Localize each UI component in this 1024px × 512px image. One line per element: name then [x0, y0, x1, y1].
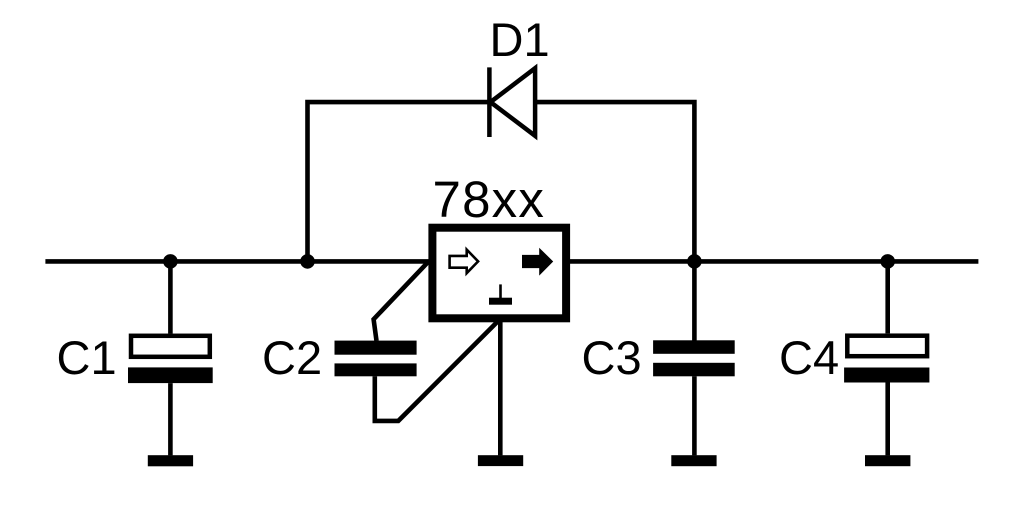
ground: C3	[671, 455, 716, 466]
capacitor C4 (polarized)	[844, 336, 929, 383]
wire: top rail from D1 to right riser down to output	[535, 102, 694, 261]
svg-text:C1: C1	[57, 331, 117, 384]
wire: input rail	[45, 259, 432, 264]
ground: C4	[865, 455, 910, 466]
svg-text:C3: C3	[582, 331, 642, 384]
ground: regulator	[478, 455, 523, 466]
node: junction at C1	[163, 254, 178, 269]
svg-text:C4: C4	[779, 331, 839, 384]
regulator output arrow (filled)	[522, 248, 553, 276]
wire: regulator ground pin	[498, 318, 503, 455]
node: junction at D1 anode side (left)	[300, 254, 315, 269]
wire: C4 top lead	[885, 261, 890, 333]
capacitor C2	[335, 341, 417, 377]
wire: C1 top lead	[168, 261, 173, 333]
node: junction at C4	[880, 254, 895, 269]
wire: C4 bottom lead	[885, 383, 890, 456]
wire: left riser and top rail to D1 cathode	[308, 102, 490, 261]
regulator U1 body (78xx box)	[432, 228, 566, 319]
capacitor C1 (polarized)	[128, 336, 213, 383]
regulator input arrow (hollow)	[450, 250, 479, 274]
ground: C1	[148, 455, 193, 466]
wire: C3 bottom lead	[692, 376, 697, 455]
capacitor C3	[653, 340, 735, 376]
svg-text:78xx: 78xx	[433, 171, 546, 228]
svg-text:C2: C2	[262, 331, 322, 384]
wire: C2 bottom lead (diagonal to regulator ground pin)	[375, 319, 501, 421]
regulator internal ground symbol	[489, 284, 512, 304]
wire: C1 bottom lead	[168, 383, 173, 455]
wire: C2 top lead (diagonal from regulator input)	[374, 262, 429, 341]
node: junction at C3 / D1 cathode side	[687, 254, 702, 269]
wire: output rail	[566, 259, 978, 264]
wire: C3 top lead	[692, 261, 697, 340]
diode D1	[489, 67, 535, 137]
svg-text:D1: D1	[490, 13, 550, 66]
